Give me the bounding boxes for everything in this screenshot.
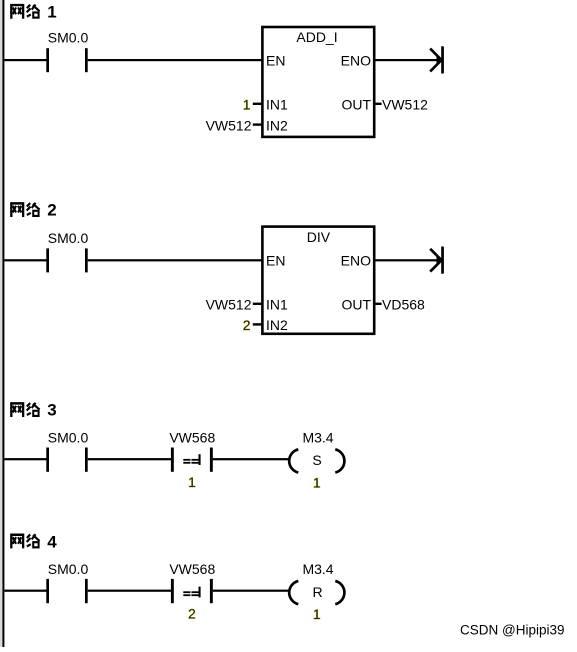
contact SM0.0 (net4) bbox=[46, 579, 87, 603]
svg-text:1: 1 bbox=[313, 606, 321, 622]
svg-text:2: 2 bbox=[243, 317, 251, 333]
label 网络 1 bbox=[11, 2, 56, 21]
wire rail to contact (net4) bbox=[4, 590, 46, 592]
svg-text:1: 1 bbox=[243, 97, 251, 113]
wire compare to coil (net3) bbox=[213, 458, 289, 460]
open branch arrow (net1) bbox=[430, 46, 444, 73]
label 网络 3 bbox=[11, 401, 56, 420]
compare contact VW568 ==I (net4) bbox=[171, 579, 213, 603]
coil S M3.4 (net3) bbox=[289, 449, 344, 472]
svg-text:SM0.0: SM0.0 bbox=[48, 230, 89, 246]
svg-text:EN: EN bbox=[266, 52, 285, 68]
pin IN1 stub (net1) bbox=[253, 103, 262, 105]
left power rail bbox=[2, 0, 4, 647]
pin IN2 stub (net1) bbox=[253, 123, 262, 125]
wire rail to contact (net3) bbox=[4, 458, 46, 460]
box ADD_I bbox=[262, 27, 374, 137]
svg-text:EN: EN bbox=[266, 252, 285, 268]
svg-text:IN1: IN1 bbox=[266, 97, 288, 113]
svg-text:ADD_I: ADD_I bbox=[296, 29, 337, 45]
svg-text:IN2: IN2 bbox=[266, 317, 288, 333]
wire ENO out (net2) bbox=[375, 259, 441, 261]
wire to compare contact (net3) bbox=[88, 458, 171, 460]
svg-text:1: 1 bbox=[313, 474, 321, 490]
pin OUT stub (net2) bbox=[375, 303, 382, 305]
svg-text:VW512: VW512 bbox=[206, 297, 252, 313]
svg-text:DIV: DIV bbox=[307, 229, 331, 245]
svg-text:VW568: VW568 bbox=[169, 561, 215, 577]
svg-text:S: S bbox=[312, 452, 321, 468]
label 网络 2 bbox=[11, 201, 56, 220]
svg-text:VW512: VW512 bbox=[382, 97, 428, 113]
svg-text:VW512: VW512 bbox=[206, 117, 252, 133]
svg-text:3: 3 bbox=[47, 401, 56, 420]
open branch arrow (net2) bbox=[430, 247, 444, 274]
svg-text:OUT: OUT bbox=[341, 97, 371, 113]
contact SM0.0 (net2) bbox=[46, 248, 87, 272]
svg-text:1: 1 bbox=[47, 2, 56, 21]
label 网络 4 bbox=[11, 532, 57, 551]
svg-text:SM0.0: SM0.0 bbox=[48, 429, 89, 445]
svg-text:CSDN @Hipipi39: CSDN @Hipipi39 bbox=[460, 622, 565, 637]
wire rail to contact (net1) bbox=[4, 59, 46, 61]
svg-text:M3.4: M3.4 bbox=[302, 561, 333, 577]
svg-text:M3.4: M3.4 bbox=[302, 429, 333, 445]
compare contact VW568 ==I (net3) bbox=[171, 448, 213, 472]
wire rail to contact (net2) bbox=[4, 259, 46, 261]
pin IN2 stub (net2) bbox=[253, 323, 262, 325]
wire compare to coil (net4) bbox=[213, 590, 289, 592]
svg-text:OUT: OUT bbox=[341, 297, 371, 313]
wire contact to box (net1) bbox=[88, 59, 263, 61]
wire ENO out (net1) bbox=[375, 59, 441, 61]
gray gutter strip bbox=[0, 0, 2, 647]
pin IN1 stub (net2) bbox=[253, 303, 262, 305]
pin OUT stub (net1) bbox=[375, 103, 382, 105]
wire to compare contact (net4) bbox=[88, 590, 171, 592]
svg-text:4: 4 bbox=[47, 532, 57, 551]
svg-text:1: 1 bbox=[188, 474, 196, 490]
contact SM0.0 (net1) bbox=[46, 48, 87, 72]
svg-text:VD568: VD568 bbox=[382, 297, 425, 313]
svg-text:SM0.0: SM0.0 bbox=[48, 30, 89, 46]
svg-text:2: 2 bbox=[47, 201, 56, 220]
svg-text:ENO: ENO bbox=[341, 252, 371, 268]
contact SM0.0 (net3) bbox=[46, 448, 87, 472]
coil R M3.4 (net4) bbox=[289, 581, 344, 604]
svg-text:VW568: VW568 bbox=[169, 429, 215, 445]
svg-text:IN1: IN1 bbox=[266, 297, 288, 313]
svg-text:SM0.0: SM0.0 bbox=[48, 561, 89, 577]
svg-text:R: R bbox=[312, 584, 322, 600]
svg-text:ENO: ENO bbox=[341, 52, 371, 68]
box DIV bbox=[262, 227, 374, 334]
svg-text:IN2: IN2 bbox=[266, 117, 288, 133]
svg-text:2: 2 bbox=[188, 605, 196, 621]
wire contact to box (net2) bbox=[88, 259, 263, 261]
